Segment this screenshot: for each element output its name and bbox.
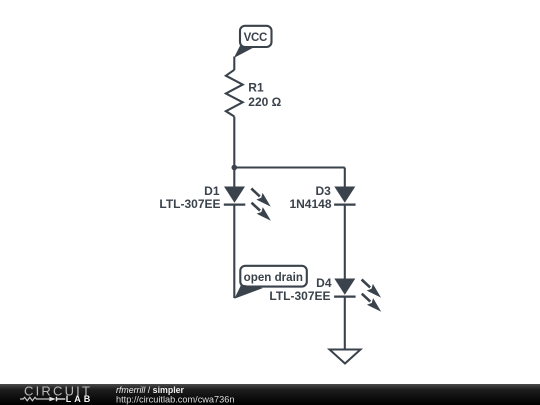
diode D3 1N4148 xyxy=(289,184,355,211)
wire D3 to D4 xyxy=(344,205,346,279)
LED D1 LTL-307EE xyxy=(159,184,271,221)
svg-text:220 Ω: 220 Ω xyxy=(248,95,281,109)
wire junction to D1 xyxy=(233,168,235,188)
node junction xyxy=(232,165,238,171)
wire junction to right branch xyxy=(234,166,344,168)
svg-text:LAB: LAB xyxy=(66,394,94,404)
net VCC flag xyxy=(234,26,272,58)
wire VCC to R1 xyxy=(233,57,235,71)
svg-text:D3: D3 xyxy=(315,184,331,198)
svg-text:http://circuitlab.com/cwa736n: http://circuitlab.com/cwa736n xyxy=(116,394,234,404)
svg-text:1N4148: 1N4148 xyxy=(289,197,331,211)
wire D4 to ground xyxy=(344,297,346,350)
svg-text:R1: R1 xyxy=(248,81,264,95)
svg-text:D1: D1 xyxy=(204,184,220,198)
footer bar xyxy=(0,384,540,405)
wire D1 to open drain xyxy=(233,205,235,298)
svg-text:open drain: open drain xyxy=(244,271,303,284)
LED D4 LTL-307EE xyxy=(269,276,381,312)
logo resistor-diode glyph xyxy=(20,397,65,402)
svg-text:D4: D4 xyxy=(316,276,332,290)
svg-text:LTL-307EE: LTL-307EE xyxy=(269,289,330,303)
wire top to D3 xyxy=(344,168,346,188)
resistor R1 xyxy=(226,70,282,117)
node open drain flag xyxy=(234,266,306,299)
svg-text:VCC: VCC xyxy=(244,32,267,44)
wire R1 to junction xyxy=(233,117,235,168)
ground xyxy=(330,350,361,364)
svg-text:LTL-307EE: LTL-307EE xyxy=(159,197,220,211)
